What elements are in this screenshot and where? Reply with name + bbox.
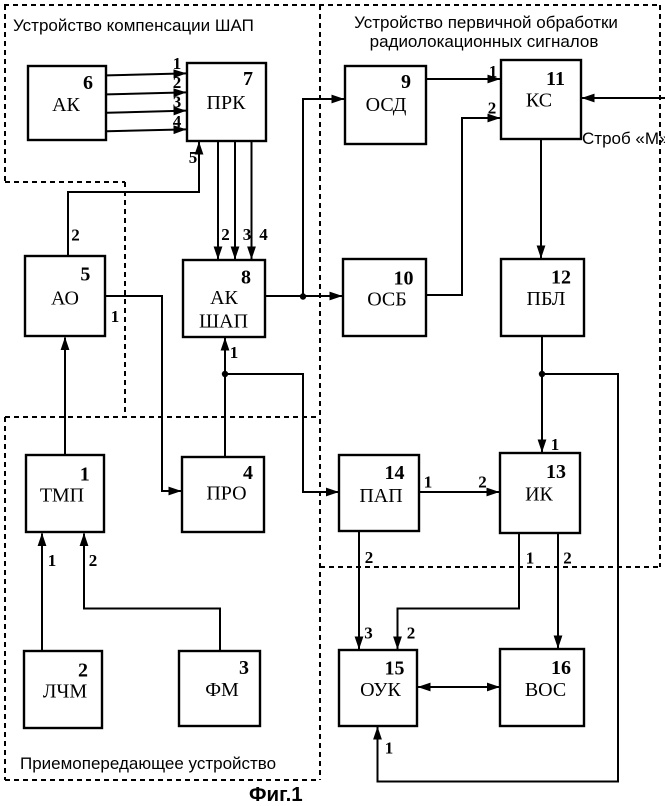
dashed bottom edge (primary processing box) bbox=[320, 566, 660, 568]
svg-text:5: 5 bbox=[189, 148, 198, 167]
block 15 OUK bbox=[339, 650, 417, 726]
svg-text:1: 1 bbox=[230, 343, 239, 362]
svg-text:10: 10 bbox=[394, 268, 414, 290]
svg-text:3: 3 bbox=[243, 225, 252, 244]
svg-text:Строб «М»: Строб «М» bbox=[582, 129, 665, 148]
wire AKSHAP -> OSB bbox=[265, 295, 342, 297]
block 1 TMP bbox=[26, 455, 104, 532]
dashed step vertical x=125 bbox=[124, 182, 126, 417]
dashed top edge bbox=[4, 4, 660, 6]
svg-text:12: 12 bbox=[551, 267, 571, 289]
svg-text:2: 2 bbox=[365, 548, 374, 567]
wire AK->PRK 1 bbox=[107, 73, 186, 75]
wire IK pin2 -> VOS bbox=[557, 533, 559, 648]
block 7 PRK bbox=[187, 63, 266, 141]
wire OSB -> KS pin2 bbox=[426, 118, 500, 295]
svg-text:2: 2 bbox=[563, 549, 572, 568]
svg-text:2: 2 bbox=[478, 473, 487, 492]
junction dot B (PBL output) bbox=[539, 371, 545, 377]
block 12 PBL bbox=[501, 259, 584, 336]
wire PRK -> AKSHAP 3 bbox=[234, 141, 236, 259]
dashed left edge (compensation box) bbox=[4, 5, 6, 182]
svg-text:ФМ: ФМ bbox=[205, 679, 239, 701]
wire AO pin2 -> PRK pin5 bbox=[68, 142, 199, 256]
svg-text:радиолокационных сигналов: радиолокационных сигналов bbox=[370, 32, 599, 51]
block 5 AO bbox=[25, 256, 105, 336]
svg-text:ПРК: ПРК bbox=[207, 92, 247, 114]
svg-text:1: 1 bbox=[551, 435, 560, 454]
svg-text:АК: АК bbox=[52, 94, 80, 116]
svg-text:2: 2 bbox=[173, 73, 182, 92]
dashed step horizontal y=182 bbox=[5, 181, 125, 183]
svg-text:ОСБ: ОСБ bbox=[367, 289, 407, 311]
block 10 OSB bbox=[343, 259, 426, 336]
svg-text:4: 4 bbox=[173, 112, 182, 131]
svg-text:3: 3 bbox=[239, 657, 249, 679]
wire PBL -> IK pin1 bbox=[541, 336, 543, 452]
wire LCHM -> TMP pin1 bbox=[41, 534, 43, 652]
dashed horizontal y=416 (transceiver box top) bbox=[5, 416, 320, 418]
wire junction -> OSD bbox=[303, 99, 344, 296]
dashed right edge (primary processing box) bbox=[659, 5, 661, 567]
block 8 AK SHAP bbox=[183, 260, 265, 337]
svg-text:Приемопередающее устройство: Приемопередающее устройство bbox=[20, 754, 276, 773]
svg-text:ВОС: ВОС bbox=[525, 679, 566, 701]
svg-text:Устройство первичной обработки: Устройство первичной обработки bbox=[354, 13, 618, 32]
svg-text:ТМП: ТМП bbox=[40, 485, 84, 507]
svg-text:13: 13 bbox=[546, 461, 566, 483]
wire strobe M -> KS bbox=[582, 97, 665, 99]
svg-text:ЛЧМ: ЛЧМ bbox=[43, 681, 88, 703]
wire AK->PRK 3 bbox=[107, 111, 186, 113]
wire IK pin1 -> OUK pin2 bbox=[398, 533, 520, 649]
svg-text:АК: АК bbox=[210, 287, 238, 309]
svg-text:11: 11 bbox=[546, 68, 565, 90]
svg-text:9: 9 bbox=[401, 71, 411, 93]
svg-text:2: 2 bbox=[407, 624, 416, 643]
block 14 PAP bbox=[339, 455, 419, 531]
block 2 LCHM bbox=[24, 651, 102, 728]
dashed left edge (transceiver box) bbox=[4, 417, 6, 780]
wire TMP -> AO bbox=[64, 338, 66, 456]
svg-text:ОСД: ОСД bbox=[366, 94, 407, 116]
svg-text:2: 2 bbox=[71, 226, 80, 245]
block 9 OSD bbox=[345, 66, 426, 144]
svg-text:1: 1 bbox=[385, 739, 394, 758]
svg-text:16: 16 bbox=[551, 657, 571, 679]
wire PRK -> AKSHAP 2 bbox=[217, 141, 219, 259]
svg-text:1: 1 bbox=[80, 464, 90, 486]
junction dot A (AKSHAP output) bbox=[300, 293, 306, 299]
wire KS -> PBL bbox=[540, 139, 542, 258]
dashed bottom edge (transceiver box) bbox=[5, 779, 320, 781]
svg-text:КС: КС bbox=[526, 90, 552, 112]
junction dot C (PRO output) bbox=[222, 371, 228, 377]
svg-text:ОУК: ОУК bbox=[360, 679, 401, 701]
svg-text:ИК: ИК bbox=[525, 484, 553, 506]
wire PRK -> AKSHAP 4 bbox=[251, 141, 253, 259]
svg-text:4: 4 bbox=[243, 462, 253, 484]
svg-text:4: 4 bbox=[259, 225, 268, 244]
svg-text:1: 1 bbox=[526, 549, 535, 568]
block 3 FM bbox=[179, 651, 260, 726]
svg-text:1: 1 bbox=[173, 54, 182, 73]
svg-text:ШАП: ШАП bbox=[199, 311, 248, 333]
svg-text:1: 1 bbox=[489, 62, 498, 81]
svg-text:2: 2 bbox=[78, 660, 88, 682]
svg-text:15: 15 bbox=[385, 658, 405, 680]
svg-text:6: 6 bbox=[83, 72, 93, 94]
wire PAP pin2 -> OUK pin3 bbox=[358, 531, 360, 649]
svg-text:1: 1 bbox=[424, 473, 433, 492]
svg-text:Устройство компенсации ШАП: Устройство компенсации ШАП bbox=[13, 16, 254, 35]
svg-text:14: 14 bbox=[385, 462, 405, 484]
wire AK->PRK 4 bbox=[107, 129, 186, 131]
svg-text:2: 2 bbox=[89, 551, 98, 570]
wire OUK <-> VOS bbox=[418, 686, 500, 688]
wire FM -> TMP pin2 bbox=[84, 534, 220, 652]
svg-text:1: 1 bbox=[111, 307, 120, 326]
svg-text:3: 3 bbox=[364, 624, 373, 643]
svg-text:2: 2 bbox=[488, 99, 497, 118]
svg-text:2: 2 bbox=[221, 225, 230, 244]
wire junction -> PAP input bbox=[225, 374, 339, 492]
block 4 PRO bbox=[182, 457, 264, 532]
svg-text:8: 8 bbox=[241, 267, 251, 289]
svg-text:АО: АО bbox=[51, 288, 79, 310]
wire AK->PRK 2 bbox=[107, 92, 186, 94]
dashed middle vertical x=320 bbox=[319, 5, 321, 780]
wire PAP pin1 -> IK pin2 bbox=[419, 491, 499, 493]
svg-text:7: 7 bbox=[243, 68, 253, 90]
block 11 KS bbox=[501, 60, 581, 139]
svg-text:ПРО: ПРО bbox=[206, 483, 246, 505]
wire PBL junction -> OUK bottom pin1 bbox=[378, 374, 619, 782]
svg-text:Фиг.1: Фиг.1 bbox=[249, 783, 303, 806]
wire AO pin1 -> PRO bbox=[105, 296, 181, 491]
svg-text:1: 1 bbox=[48, 551, 57, 570]
wire PRO -> AKSHAP pin1 bbox=[224, 338, 226, 457]
svg-text:3: 3 bbox=[173, 93, 182, 112]
svg-text:5: 5 bbox=[80, 264, 90, 286]
block 13 IK bbox=[500, 453, 580, 533]
svg-text:ПАП: ПАП bbox=[359, 485, 402, 507]
block 16 VOS bbox=[500, 649, 584, 726]
wire OSD -> KS pin1 bbox=[426, 78, 500, 80]
svg-text:ПБЛ: ПБЛ bbox=[527, 288, 566, 310]
block 6 AK bbox=[28, 66, 106, 140]
